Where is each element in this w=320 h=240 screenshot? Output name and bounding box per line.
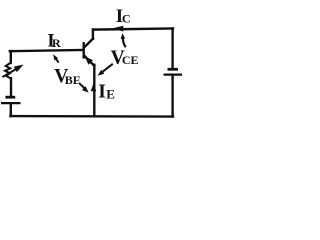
variable-arrow through resistor xyxy=(3,65,24,78)
wire collector vertical xyxy=(92,29,94,38)
wire right vertical lower xyxy=(171,76,173,117)
svg-text:I: I xyxy=(98,81,106,102)
svg-text:BE: BE xyxy=(65,73,81,87)
label IE xyxy=(98,81,115,102)
arrow IR current on base wire xyxy=(53,54,59,62)
battery B1 left (short plate top) xyxy=(1,97,21,103)
resistor R zigzag (variable) xyxy=(5,63,11,79)
wire right vertical upper xyxy=(171,29,173,69)
svg-text:CE: CE xyxy=(122,53,139,67)
wire left above battery xyxy=(10,78,12,96)
label IR xyxy=(47,30,61,51)
wire collector diagonal xyxy=(84,39,93,48)
arrow IE on emitter wire xyxy=(91,83,97,91)
transistor Q1 emitter arrowhead (PNP) xyxy=(85,57,93,65)
arrow VCE lower xyxy=(98,64,113,76)
svg-text:E: E xyxy=(106,87,115,102)
label VBE xyxy=(54,66,81,87)
battery B2 right (short plate top) xyxy=(164,69,183,74)
svg-text:C: C xyxy=(122,12,131,26)
wire emitter vertical xyxy=(93,65,95,116)
arrow VCE upper xyxy=(121,33,126,47)
arrow IC on top rail xyxy=(111,26,123,32)
arrow VBE xyxy=(80,84,89,93)
wire top rail collector to right xyxy=(93,29,173,30)
wire emitter diagonal xyxy=(84,56,94,66)
wire left battery stem xyxy=(10,104,12,116)
svg-text:R: R xyxy=(52,36,61,50)
wire bottom rail xyxy=(10,115,173,118)
transistor Q1 base bar xyxy=(82,42,84,59)
label IC xyxy=(116,6,131,27)
label VCE xyxy=(111,47,139,68)
wire base horizontal xyxy=(10,50,83,51)
wire top-left vertical xyxy=(10,51,12,63)
